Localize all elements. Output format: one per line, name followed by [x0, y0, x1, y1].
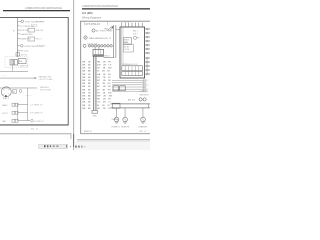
svg-text:BU 2B LP: BU 2B LP [97, 108, 111, 110]
splice node S1 [83, 44, 86, 47]
right diagram frame top [80, 20, 150, 23]
svg-text:BB 8B: BB 8B [82, 108, 91, 110]
svg-text:STARTER: STARTER [139, 126, 148, 129]
splice chain [88, 45, 112, 48]
svg-text:LUBRICATION AND MAINTENANCE: LUBRICATION AND MAINTENANCE [82, 5, 118, 8]
ammeter A1 [84, 36, 87, 39]
svg-text:SL 2B FD: SL 2B FD [97, 83, 111, 85]
svg-text:IGN 2: IGN 2 [133, 33, 138, 35]
U1 terminal strip row2 [122, 71, 143, 75]
U1 terminal strip row1 [122, 66, 143, 71]
branch junction box B2 [120, 86, 126, 91]
pane divider dark segment [72, 134, 75, 147]
right pin connector ticks [147, 28, 150, 75]
connector rail right [146, 58, 149, 76]
wire arrow feed [0, 77, 35, 80]
left nav button 4 [56, 145, 58, 147]
svg-text:B AT 4: B AT 4 [3, 97, 10, 100]
svg-text:BB 1B: BB 1B [82, 61, 91, 63]
svg-text:GA 1B FD: GA 1B FD [97, 73, 111, 76]
svg-text:BB 8B: BB 8B [82, 83, 91, 85]
svg-text:- -- - -- -: - -- - -- - [25, 95, 32, 97]
svg-text:BAT SOL: BAT SOL [128, 98, 135, 101]
svg-text:PARK: PARK [2, 104, 8, 107]
svg-text:TERMINAL BLOCK: TERMINAL BLOCK [122, 63, 138, 66]
control module U1 box [120, 27, 145, 78]
lamp LP1 [114, 117, 119, 122]
right nav mark 3 [81, 146, 82, 148]
power bus wire [16, 17, 19, 57]
wire row4 stub [18, 33, 20, 36]
lamp row2 wire [18, 111, 28, 114]
svg-text:BB 1B: BB 1B [82, 80, 91, 82]
lamp row1 boxes [12, 103, 15, 106]
connector C1 hatched [10, 60, 14, 65]
svg-text:14 RD WH: 14 RD WH [140, 91, 149, 93]
svg-text:BB 0B: BB 0B [82, 89, 91, 91]
svg-text:BB 1B: BB 1B [82, 74, 91, 76]
harness bus pair vertical [92, 56, 95, 110]
svg-text:SP 1B SW: SP 1B SW [97, 68, 112, 70]
relay K2 [28, 37, 35, 41]
svg-text:0-0 (M6): 0-0 (M6) [82, 11, 93, 15]
wire from chain to block [95, 47, 99, 49]
fuse F2 [21, 45, 24, 48]
wire link to module [116, 29, 120, 31]
svg-text:PK 2B LP: PK 2B LP [97, 77, 111, 79]
lamp row3 boxes [12, 119, 15, 122]
wire row5 stub [18, 38, 20, 41]
harness dashed enclosure [5, 57, 28, 68]
svg-text:BR/W 12: BR/W 12 [84, 131, 92, 133]
fuse F1 [21, 20, 24, 23]
row6 dotted wire [37, 45, 45, 47]
svg-text:HB 1B FD: HB 1B FD [97, 61, 111, 63]
lamp row2 boxes [12, 111, 15, 114]
svg-text:LP 4B FD: LP 4B FD [97, 89, 111, 91]
svg-text:DOME LP: DOME LP [35, 121, 45, 123]
svg-text:WTR TMP: WTR TMP [20, 30, 30, 32]
svg-text:12: 12 [146, 80, 148, 82]
svg-text:BAT 1: BAT 1 [133, 30, 138, 33]
U1 regulator inner box [123, 45, 133, 52]
ignition node circle [92, 29, 95, 32]
lamp LP3 [141, 117, 146, 122]
bus row labels right column [97, 61, 113, 110]
svg-text:L.F. PARK LP: L.F. PARK LP [30, 104, 43, 107]
svg-text:BB 8B: BB 8B [82, 71, 91, 73]
left diagram bottom frame line [0, 123, 68, 126]
node ring [19, 90, 22, 93]
long wire lower [111, 107, 151, 110]
right nav mark 2 [78, 146, 79, 148]
wire row2 stub [18, 25, 20, 28]
svg-text:REG TERM: REG TERM [40, 90, 51, 92]
svg-text:BB 1B: BB 1B [82, 105, 91, 107]
svg-text:STOP: STOP [2, 113, 8, 115]
arrowhead small [111, 26, 114, 28]
svg-text:BRAKE SW: BRAKE SW [20, 38, 31, 41]
ignition switch box [18, 59, 26, 64]
lamp row1 wire [18, 103, 28, 106]
svg-text:FUEL GAUGE UNIT: FUEL GAUGE UNIT [25, 20, 44, 23]
svg-text:R.F. PARK LP: R.F. PARK LP [30, 112, 44, 115]
left nav button 2 [47, 145, 48, 147]
svg-text:BB 1B: BB 1B [82, 86, 91, 88]
svg-text:BB 1B: BB 1B [82, 99, 91, 101]
svg-text:BN 12: BN 12 [105, 55, 110, 57]
left page edge corner [70, 133, 73, 139]
svg-text:IN 1B LP: IN 1B LP [97, 105, 110, 107]
svg-text:Wiring Diagrams: Wiring Diagrams [82, 16, 102, 20]
svg-text:8W - 10: 8W - 10 [31, 128, 39, 130]
svg-text:GAUGE: GAUGE [36, 29, 44, 32]
relay K1 [28, 28, 35, 32]
svg-text:IND LP: IND LP [31, 26, 38, 28]
svg-text:IG 4B BT: IG 4B BT [97, 71, 111, 73]
U1 right pin stubs with connectors [145, 29, 148, 74]
svg-text:GTS 3760-2.5: GTS 3760-2.5 [86, 24, 101, 26]
svg-text:1 2 3 4 5 6 7: 1 2 3 4 5 6 7 [121, 21, 131, 23]
right scroll groove top [77, 138, 150, 141]
branch wire end connectors [143, 79, 146, 92]
wire pair vertical [112, 25, 115, 58]
svg-text:BB 0B: BB 0B [82, 102, 91, 104]
wire row3 stub [18, 29, 20, 32]
C10 lower band [93, 54, 103, 56]
U1 regulator block [123, 38, 131, 44]
U1 inner node circle [134, 36, 137, 39]
splice chain dots [89, 44, 111, 47]
svg-text:CIRCUIT DIAG: CIRCUIT DIAG [39, 78, 53, 81]
motor M1 [1, 87, 11, 97]
bus row labels left column [82, 61, 91, 110]
svg-text:- - - -: - - - - [2, 75, 7, 77]
lamp LP2 [123, 117, 128, 122]
title box ticks [84, 21, 107, 25]
right page bottom edge [80, 132, 150, 135]
wire drop mid [16, 103, 19, 121]
left page bottom edge [0, 132, 71, 135]
svg-text:HORN HI: HORN HI [121, 127, 129, 129]
svg-text:HT 1B SW: HT 1B SW [97, 92, 112, 94]
wire block to bus pair [104, 57, 114, 59]
left nav dot [50, 145, 51, 147]
wire drop right [26, 88, 29, 121]
right nav mark 1 [75, 146, 76, 148]
motor brush box [13, 90, 17, 93]
indicator circle pair [139, 98, 142, 101]
svg-text:GND: GND [93, 115, 98, 117]
connector block C10 [93, 49, 104, 56]
left nav tick [65, 145, 68, 148]
svg-text:MAIN HARNESS FD 12: MAIN HARNESS FD 12 [89, 37, 112, 40]
wire vertical to bus [11, 65, 14, 71]
wire motor feed [0, 87, 37, 90]
device drop 2 wire [124, 108, 127, 117]
U1 top pin stubs [122, 23, 142, 27]
branch junction box B1 [113, 86, 119, 91]
lamp L3 [31, 119, 34, 122]
relay box on wires [112, 103, 120, 108]
junction dot [5, 95, 7, 97]
svg-text:RD 1B FD: RD 1B FD [97, 99, 112, 101]
bus branch wires to module [112, 80, 143, 91]
left nav button 1 [44, 145, 46, 147]
long wire upper [111, 103, 151, 106]
connector block J1 [16, 53, 20, 56]
svg-text:A1 B2: A1 B2 [124, 45, 129, 48]
lamp row3 wire [18, 119, 30, 122]
left nav dot2 [69, 146, 72, 147]
svg-text:GEN FLD: GEN FLD [40, 87, 50, 89]
svg-text:BB 1B: BB 1B [82, 92, 91, 94]
left nav button 3 [53, 145, 55, 147]
bus bottom terminator [92, 110, 97, 113]
wire horizontal feed [0, 70, 28, 73]
arrow slashes [108, 27, 114, 31]
wire row7 stub [18, 49, 20, 52]
svg-text:REG: REG [124, 42, 129, 44]
right page header rule [82, 8, 150, 9]
connector C2 [14, 60, 17, 65]
svg-text:HORN LO: HORN LO [112, 127, 121, 129]
svg-text:MT 1B FD: MT 1B FD [97, 80, 112, 82]
svg-text:SEE NOTE: SEE NOTE [140, 94, 150, 96]
row2 tick marks [31, 24, 37, 26]
svg-text:SEE AN CHG: SEE AN CHG [39, 76, 52, 79]
svg-text:BB 0B: BB 0B [82, 65, 91, 67]
pane divider [72, 0, 75, 150]
device drop 3 wire [142, 108, 145, 117]
svg-text:CHARGE IND: CHARGE IND [20, 33, 34, 36]
svg-text:8W - 11: 8W - 11 [140, 131, 146, 133]
svg-text:14: 14 [146, 85, 148, 87]
right pane footer area [74, 142, 150, 150]
svg-text:BB 1B: BB 1B [82, 68, 91, 70]
svg-text:BB 0B: BB 0B [82, 77, 91, 79]
right scroll groove bottom [77, 140, 150, 143]
svg-text:HORN RELAY FEED: HORN RELAY FEED [25, 45, 45, 48]
wire end tick [147, 104, 150, 108]
svg-text:L SWITCH: L SWITCH [18, 66, 28, 68]
svg-text:IGN COIL: IGN COIL [20, 51, 30, 53]
U1 inner rail [122, 27, 123, 66]
left page header rule [3, 10, 70, 11]
svg-text:AM GN: AM GN [21, 54, 28, 57]
svg-text:C3 D4: C3 D4 [124, 49, 129, 51]
right nav dot [83, 146, 86, 147]
wire row6 stub [18, 45, 21, 48]
device drop 1 wire [115, 108, 118, 117]
left status bar [39, 144, 68, 148]
left diagram frame [0, 17, 68, 125]
row1 dotted wire [36, 20, 45, 22]
wire row1 stub [18, 20, 22, 23]
svg-text:WP 2B SW: WP 2B SW [97, 96, 113, 98]
svg-text:AC 1B FD: AC 1B FD [97, 85, 111, 88]
svg-text:BB 8B: BB 8B [82, 96, 91, 98]
svg-text:LUBRICATION AND MAINTENANCE: LUBRICATION AND MAINTENANCE [25, 7, 62, 10]
svg-text:IND LP: IND LP [36, 39, 43, 41]
svg-text:CG 4B LT: CG 4B LT [97, 102, 111, 104]
svg-text:DM 2B LP: DM 2B LP [97, 65, 112, 67]
svg-text:C D E F G H: C D E F G H [87, 43, 98, 45]
arrowhead [35, 77, 37, 79]
bus row extra right labels [97, 80, 112, 91]
right diagram frame left [79, 21, 82, 134]
